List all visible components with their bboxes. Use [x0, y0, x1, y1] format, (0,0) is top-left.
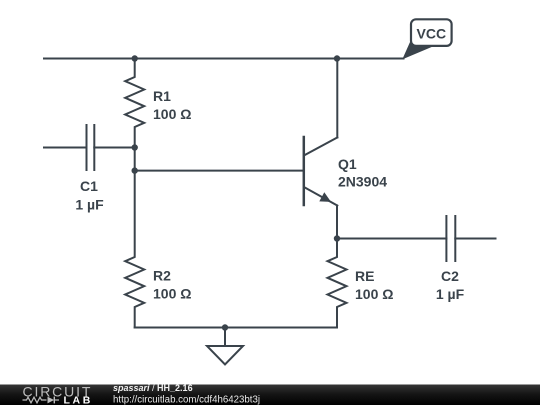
logo CIRCUIT LAB	[23, 384, 93, 405]
svg-text:1 µF: 1 µF	[436, 286, 465, 302]
svg-text:http://circuitlab.com/cdf4h642: http://circuitlab.com/cdf4h6423bt3j	[113, 394, 260, 405]
resistor R1	[125, 59, 191, 148]
svg-text:VCC: VCC	[417, 26, 447, 42]
svg-text:1 µF: 1 µF	[75, 197, 104, 213]
svg-text:R1: R1	[153, 88, 171, 104]
ground	[207, 328, 243, 365]
node junction top collector	[334, 55, 340, 61]
wire C1 to node	[94, 147, 134, 149]
resistor RE	[328, 239, 394, 328]
node junction C1/R1	[132, 144, 138, 150]
node junction emitter	[334, 235, 340, 241]
resistor R2	[125, 171, 191, 328]
wire C1 input left	[44, 147, 87, 149]
svg-text:LAB: LAB	[64, 394, 93, 405]
capacitor C1	[75, 125, 104, 213]
wire C2 output right	[455, 238, 495, 240]
node junction ground	[222, 324, 228, 330]
node junction base wire	[132, 167, 138, 173]
capacitor C2	[436, 216, 465, 302]
wire bottom rail	[135, 327, 337, 329]
svg-text:C2: C2	[441, 268, 459, 284]
svg-text:100 Ω: 100 Ω	[355, 286, 393, 302]
svg-text:R2: R2	[153, 268, 171, 284]
svg-text:2N3904: 2N3904	[338, 174, 387, 190]
node junction top R1	[132, 55, 138, 61]
net flag VCC	[402, 19, 451, 59]
transistor Q1	[304, 59, 387, 239]
svg-text:100 Ω: 100 Ω	[153, 106, 191, 122]
wire left column mid	[134, 148, 136, 171]
svg-text:spassari / HH_2.16: spassari / HH_2.16	[113, 383, 193, 393]
svg-text:Q1: Q1	[338, 156, 357, 172]
svg-text:100 Ω: 100 Ω	[153, 286, 191, 302]
wire emitter to C2	[337, 238, 446, 240]
svg-text:RE: RE	[355, 268, 374, 284]
wire top rail	[44, 58, 404, 60]
svg-text:C1: C1	[80, 178, 98, 194]
wire node to base	[135, 170, 304, 172]
